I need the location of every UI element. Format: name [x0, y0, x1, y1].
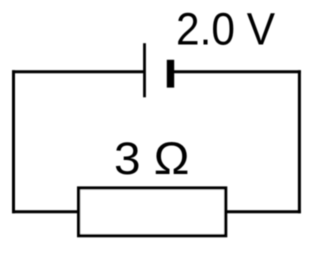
wire bottom-right segment [226, 210, 301, 213]
svg-text:3 Ω: 3 Ω [114, 133, 190, 184]
resistor R1 body [79, 188, 226, 236]
wire left side [12, 70, 15, 213]
svg-text:2.0 V: 2.0 V [176, 4, 275, 55]
battery B1 positive plate (long thin) [143, 43, 146, 97]
wire top-left segment [12, 70, 145, 73]
wire top-right segment [170, 70, 301, 73]
wire right side [298, 70, 301, 213]
battery B1 negative plate (short thick) [167, 60, 174, 88]
wire bottom-left segment [12, 210, 79, 213]
